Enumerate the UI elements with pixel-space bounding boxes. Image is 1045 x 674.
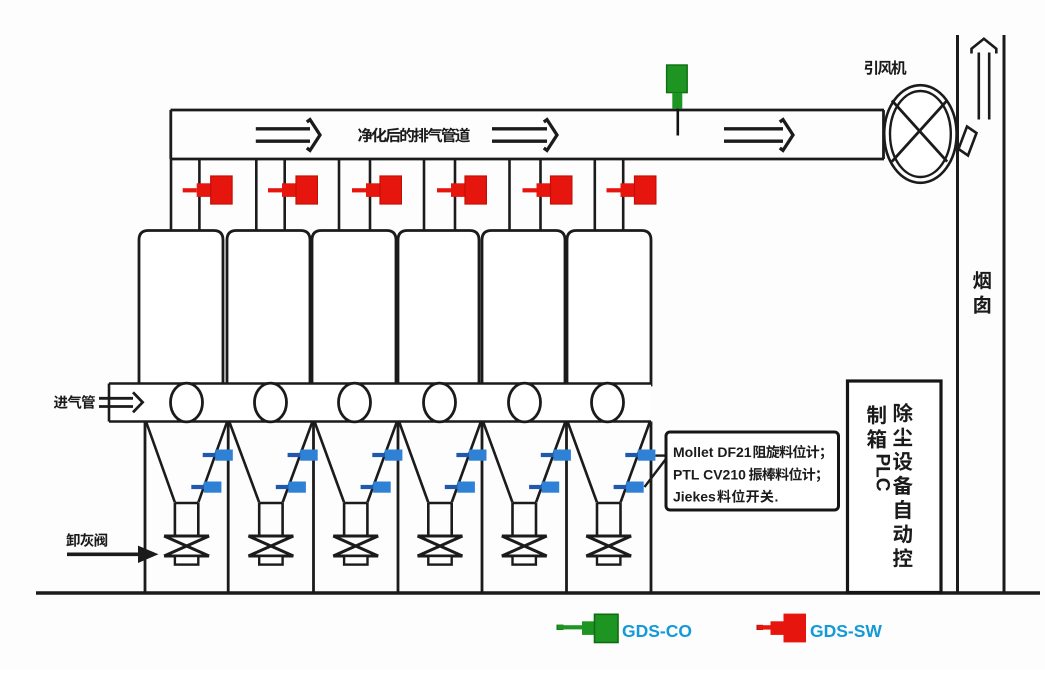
chimney up-flow arrow <box>972 39 997 120</box>
label 进气管 (inlet pipe) <box>54 395 95 409</box>
filter unit 4 <box>398 231 479 386</box>
svg-text:.: . <box>775 489 779 505</box>
GDS-CO sensor probe line <box>676 108 679 136</box>
discharge valve 5 <box>502 536 547 556</box>
inlet pipe port ellipse 6 <box>592 383 624 422</box>
inlet pipe port ellipse 4 <box>424 383 456 422</box>
connector pipe 2 <box>256 159 284 231</box>
PLC control cabinet box <box>848 381 942 593</box>
GDS-SW sensor 6 (red) <box>607 176 656 204</box>
GDS-SW sensor 4 (red) <box>437 176 486 204</box>
level sensor 4.2 (blue) <box>445 482 475 493</box>
level sensor 5.1 (blue) <box>541 450 571 461</box>
connector pipe 1 <box>171 159 199 231</box>
GDS-SW sensor 2 (red) <box>268 176 317 204</box>
filter unit 1 <box>139 231 223 386</box>
inlet pipe port ellipse 2 <box>255 383 287 422</box>
filter unit 5 <box>482 231 565 386</box>
level sensor 1.2 (blue) <box>191 482 221 493</box>
GDS-SW sensor 5 (red) <box>523 176 572 204</box>
connector pipe 3 <box>339 159 370 231</box>
label 净化后的排气管道 (purified exhaust duct) <box>358 128 470 143</box>
svg-text:Mollet DF21: Mollet DF21 <box>673 444 752 460</box>
inlet flow arrow <box>99 392 143 412</box>
level sensor 3.1 (blue) <box>372 450 402 461</box>
hopper dividing wall 1 <box>144 422 147 594</box>
label 除尘设备自动控 (right column) <box>893 403 913 567</box>
inlet pipe port ellipse 3 <box>339 383 371 422</box>
svg-text:GDS-CO: GDS-CO <box>622 621 692 641</box>
legend GDS-SW symbol (red) <box>757 614 807 643</box>
GDS-SW sensor 3 (red) <box>352 176 401 204</box>
level sensor 4.1 (blue) <box>456 450 486 461</box>
inlet pipe port ellipse 1 <box>171 383 203 422</box>
valve flange 1 <box>175 556 198 565</box>
ash valve pointer arrow <box>67 552 141 556</box>
svg-text:PLC: PLC <box>872 454 893 492</box>
fan X blades <box>892 100 947 161</box>
GDS-SW sensor 1 (red) <box>183 176 232 204</box>
label 制箱 (left column) <box>867 405 886 448</box>
valve flange 6 <box>597 556 620 565</box>
hopper dividing wall 2 <box>227 422 230 594</box>
duct flow arrow 3 <box>724 120 793 151</box>
fan outlet stub <box>959 127 977 156</box>
level sensor 6.2 (blue) <box>614 482 644 493</box>
filter unit 6 <box>567 231 651 386</box>
valve flange 4 <box>428 556 451 565</box>
chimney wall left <box>956 35 959 593</box>
label 引风机 (induced draft fan) <box>865 60 907 75</box>
annotation text line 2 <box>673 467 820 483</box>
hopper cone 5 <box>483 422 565 536</box>
discharge valve 1 <box>164 536 209 556</box>
discharge valve 2 <box>248 536 293 556</box>
hopper dividing wall 5 <box>481 422 484 594</box>
filter unit 3 <box>312 231 396 386</box>
hopper cone 1 <box>146 422 227 536</box>
hopper cone 3 <box>315 422 397 536</box>
duct flow arrow 2 <box>492 120 557 151</box>
discharge valve 4 <box>418 536 463 556</box>
valve flange 5 <box>513 556 536 565</box>
inlet pipe port ellipse 5 <box>509 383 541 422</box>
hopper dividing wall 7 <box>650 422 653 594</box>
connector pipe 4 <box>424 159 455 231</box>
label 烟囱 (chimney) <box>973 271 991 314</box>
annotation text line 3 <box>673 489 778 505</box>
legend GDS-CO symbol (green) <box>557 614 619 642</box>
leader line to upper level sensor <box>656 454 667 456</box>
svg-text:Jiekes: Jiekes <box>673 489 716 505</box>
exhaust duct body <box>171 110 885 159</box>
connector pipe 6 <box>595 159 623 231</box>
hopper cone 6 <box>568 422 650 536</box>
GDS-CO sensor (green) <box>667 65 688 109</box>
duct flow arrow 1 <box>256 120 320 151</box>
hopper cone 4 <box>399 422 481 536</box>
hopper dividing wall 6 <box>565 422 568 594</box>
hopper dividing wall 3 <box>312 422 315 594</box>
annotation text line 1 <box>673 444 824 460</box>
level sensor 2.2 (blue) <box>276 482 306 493</box>
fan inner ring <box>890 91 951 177</box>
label 卸灰阀 (ash discharge valve) <box>66 533 107 547</box>
hopper cone 2 <box>229 422 312 536</box>
connector pipe 5 <box>510 159 541 231</box>
level sensor 3.2 (blue) <box>361 482 391 493</box>
svg-text:GDS-SW: GDS-SW <box>810 621 882 641</box>
svg-text:PTL CV210: PTL CV210 <box>673 467 746 483</box>
hopper dividing wall 4 <box>397 422 400 594</box>
valve flange 2 <box>259 556 282 565</box>
ground baseline <box>36 591 1040 594</box>
discharge valve 6 <box>586 536 631 556</box>
filter unit 2 <box>227 231 310 386</box>
fan 引风机 outer ring <box>884 85 956 183</box>
chimney wall right <box>1003 35 1006 593</box>
level sensor 1.1 (blue) <box>203 450 233 461</box>
discharge valve 3 <box>333 536 378 556</box>
inlet pipe body <box>109 384 651 422</box>
leader line to lower level sensor <box>645 460 666 488</box>
valve flange 3 <box>344 556 367 565</box>
annotation box <box>666 432 839 510</box>
level sensor 5.2 (blue) <box>529 482 559 493</box>
level sensor 6.1 (blue) <box>625 450 655 461</box>
level sensor 2.1 (blue) <box>288 450 318 461</box>
